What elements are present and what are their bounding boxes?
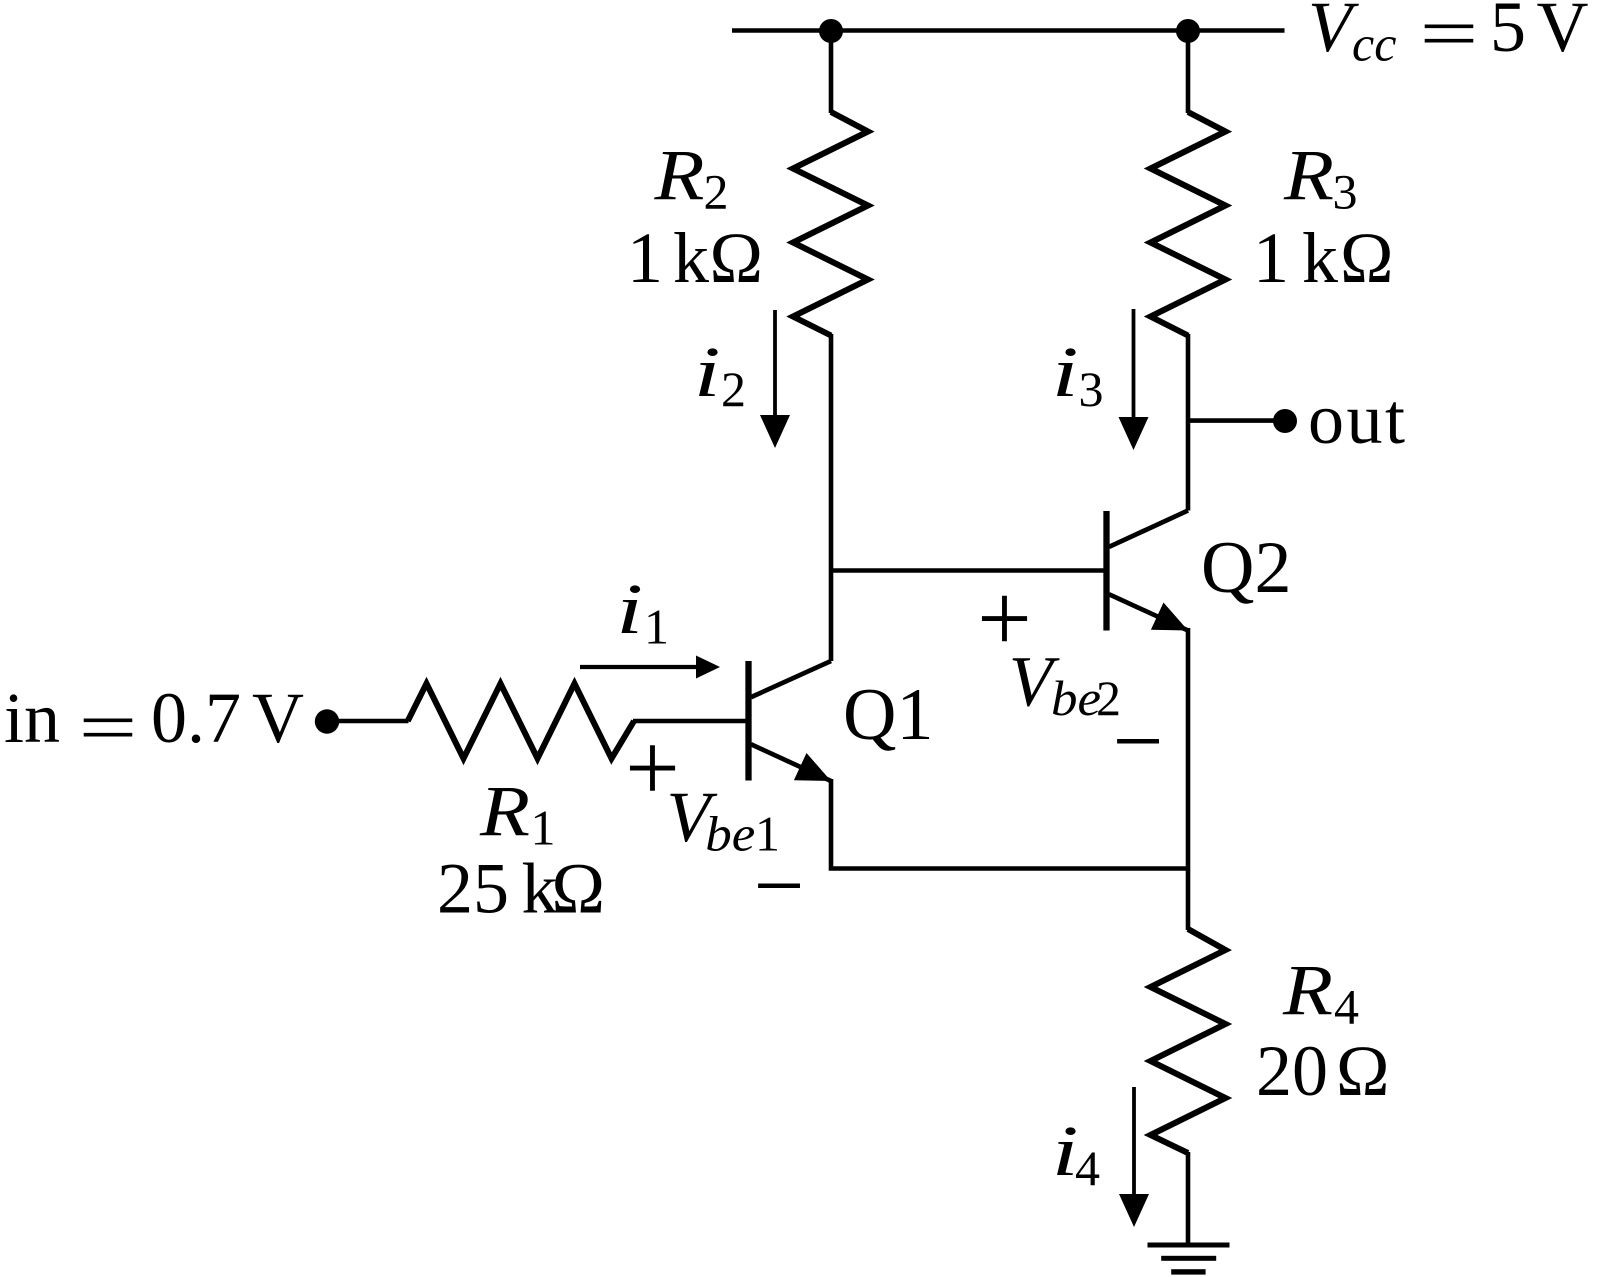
resistor R4 — [1151, 929, 1226, 1153]
svg-text:V: V — [1537, 0, 1589, 67]
svg-text:3: 3 — [1333, 164, 1358, 220]
resistor R2 — [793, 30, 868, 336]
label i2 — [694, 332, 746, 417]
svg-text:2: 2 — [704, 164, 729, 220]
label R1 — [479, 771, 556, 856]
svg-text:25: 25 — [437, 849, 509, 929]
svg-text:R: R — [1282, 950, 1333, 1030]
wire R2 bottom to Q1 collector corner — [829, 334, 834, 661]
svg-text:5: 5 — [1490, 0, 1526, 67]
resistor R3 — [1151, 30, 1226, 336]
svg-text:−: − — [1113, 692, 1164, 791]
svg-text:3: 3 — [1079, 361, 1104, 417]
svg-text:1: 1 — [531, 800, 556, 856]
value label 20 Ohm (R4) — [1256, 1031, 1390, 1111]
svg-text:=: = — [79, 688, 138, 767]
wire Vcc rail — [732, 28, 1285, 33]
label R4 — [1282, 950, 1359, 1035]
svg-text:Ω: Ω — [552, 849, 606, 929]
value label 25 kOhm (R1) — [437, 849, 605, 929]
svg-text:Q2: Q2 — [1201, 527, 1291, 609]
svg-text:Q1: Q1 — [843, 674, 933, 756]
node input dot — [315, 709, 339, 733]
label R3 — [1283, 135, 1358, 220]
node junction dot on Vcc rail above R3 — [1176, 19, 1200, 43]
node out dot — [1273, 409, 1297, 433]
label Vbe1 — [667, 777, 781, 862]
svg-text:i: i — [694, 332, 721, 412]
svg-text:be: be — [705, 806, 755, 862]
svg-text:4: 4 — [1334, 979, 1359, 1035]
current arrow i4 — [1119, 1087, 1149, 1227]
label i1 — [616, 569, 669, 655]
wire Q2 emitter down to R4 — [1186, 628, 1191, 930]
svg-text:−: − — [754, 837, 805, 936]
label in = 0.7 V — [4, 678, 304, 768]
current arrow i2 — [760, 310, 790, 448]
current arrow i3 — [1119, 309, 1149, 450]
svg-text:0.7: 0.7 — [151, 678, 241, 758]
svg-text:=: = — [1420, 0, 1479, 74]
current arrow i1 — [580, 656, 720, 679]
resistor R1 — [327, 684, 746, 759]
svg-text:k: k — [1302, 218, 1338, 298]
svg-text:4: 4 — [1075, 1140, 1100, 1196]
ground — [1148, 1243, 1230, 1275]
value label 1 kOhm (R3) — [1253, 218, 1394, 298]
svg-text:i: i — [616, 569, 643, 649]
svg-text:R: R — [653, 135, 704, 215]
node out wire — [1188, 418, 1275, 423]
svg-text:i: i — [1052, 332, 1079, 412]
svg-text:1: 1 — [627, 218, 663, 298]
label i4 — [1052, 1111, 1100, 1196]
wire R3 bottom to Q2 collector corner — [1186, 334, 1191, 511]
svg-text:Ω: Ω — [1340, 218, 1394, 298]
wire Q1/Q2 base link (node between R2 and Q2 base) — [831, 568, 1104, 573]
wire R4 bottom to ground — [1186, 1152, 1191, 1244]
svg-text:be: be — [1051, 670, 1101, 726]
node junction dot on Vcc rail above R2 — [819, 19, 843, 43]
label i3 — [1052, 332, 1104, 417]
svg-text:R: R — [479, 771, 530, 851]
svg-text:V: V — [252, 678, 304, 758]
svg-text:Ω: Ω — [1336, 1031, 1390, 1111]
label R2 — [653, 135, 728, 220]
svg-text:20: 20 — [1256, 1031, 1328, 1111]
value label 1 kOhm (R2) — [627, 218, 763, 298]
svg-text:cc: cc — [1352, 16, 1396, 72]
svg-text:1: 1 — [1253, 218, 1289, 298]
label Vbe2 — [1009, 642, 1121, 727]
wire Q1 emitter down and across to Q2 emitter — [831, 779, 1188, 869]
svg-text:2: 2 — [721, 361, 746, 417]
svg-text:out: out — [1308, 379, 1408, 459]
svg-text:k: k — [673, 218, 709, 298]
label Vcc = 5 V — [1308, 0, 1589, 74]
svg-text:R: R — [1283, 135, 1334, 215]
transistor Q2 — [1107, 511, 1189, 631]
svg-text:Ω: Ω — [710, 218, 764, 298]
svg-text:in: in — [4, 678, 60, 758]
transistor Q1 — [749, 661, 832, 781]
svg-text:1: 1 — [644, 599, 669, 655]
